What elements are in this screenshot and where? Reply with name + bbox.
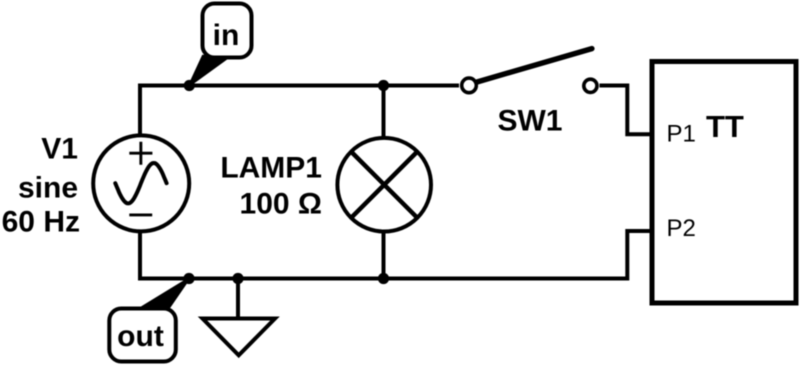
wire lamp top stub xyxy=(382,86,386,139)
ground symbol xyxy=(203,319,276,356)
svg-text:LAMP1: LAMP1 xyxy=(220,152,322,185)
box TT xyxy=(652,62,796,304)
node out junction dot xyxy=(183,273,194,284)
out callout tail xyxy=(142,279,190,308)
svg-text:SW1: SW1 xyxy=(497,105,562,138)
svg-text:out: out xyxy=(117,320,164,353)
V1 minus sign xyxy=(129,213,152,216)
lamp X cross xyxy=(351,152,417,218)
svg-text:TT: TT xyxy=(706,109,744,144)
node in junction dot xyxy=(184,80,195,91)
node lamp top junction dot xyxy=(378,80,389,91)
wire switch to P1 pin xyxy=(600,86,653,135)
svg-text:sine: sine xyxy=(18,172,78,205)
out callout box xyxy=(109,309,176,362)
node ground junction dot xyxy=(232,273,243,284)
svg-text:P2: P2 xyxy=(667,215,696,242)
wire ground stub xyxy=(236,279,240,319)
switch SW1 lever xyxy=(477,49,592,82)
wire left vertical bottom (V1 to bottom wire) and bottom horizontal xyxy=(140,233,628,279)
svg-text:P1: P1 xyxy=(667,121,696,148)
voltage source V1 circle xyxy=(93,135,189,231)
svg-text:60 Hz: 60 Hz xyxy=(2,206,80,239)
switch SW1 right terminal circle xyxy=(584,79,597,92)
wire top horizontal from V1 to switch, with corner down to V1 top xyxy=(140,86,459,137)
in callout tail xyxy=(189,56,230,86)
wire lamp bottom stub xyxy=(382,232,386,279)
node lamp bottom junction dot xyxy=(378,273,389,284)
svg-text:V1: V1 xyxy=(41,133,78,166)
V1 plus sign xyxy=(129,142,152,165)
V1 sine wave xyxy=(115,163,166,203)
switch SW1 left terminal circle xyxy=(462,78,477,93)
wire bottom to P2 pin xyxy=(627,231,652,281)
svg-text:100 Ω: 100 Ω xyxy=(240,188,322,221)
in callout box xyxy=(203,4,252,58)
lamp LAMP1 circle xyxy=(337,138,431,232)
svg-text:in: in xyxy=(213,19,240,52)
